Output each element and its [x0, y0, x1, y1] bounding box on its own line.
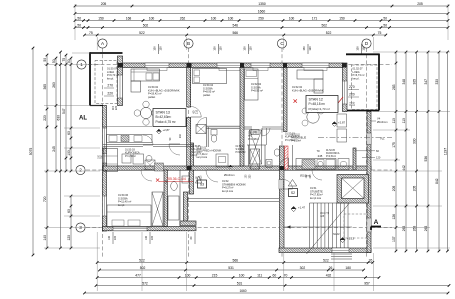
svg-text:347: 347 [424, 79, 428, 85]
svg-text:P=4,51m²: P=4,51m² [326, 155, 336, 158]
svg-text:100: 100 [185, 274, 191, 278]
closet cross box center [250, 130, 262, 164]
door lower-left bedroom [141, 170, 152, 181]
dimension row bottom-4 [95, 282, 451, 287]
svg-text:957: 957 [364, 282, 370, 286]
svg-text:B: B [187, 41, 190, 46]
loggia top-right block [346, 54, 379, 111]
stairwell south wall [279, 248, 371, 253]
closet row left apt hall [104, 149, 118, 172]
bath inner partition lower-left [179, 170, 181, 227]
grid bubble 3 [76, 223, 85, 232]
partition south of bedroom right apt (y127) [244, 127, 283, 129]
svg-text:283: 283 [392, 84, 396, 90]
svg-text:75: 75 [62, 58, 66, 62]
svg-text:210: 210 [179, 133, 182, 138]
label hall right apt [197, 147, 222, 160]
svg-text:AL: AL [79, 116, 87, 122]
bathroom fixtures left apt [122, 154, 164, 171]
svg-text:180: 180 [345, 266, 351, 270]
wall west of entrance court jog [184, 192, 188, 225]
svg-text:502: 502 [321, 24, 327, 28]
svg-text:120: 120 [376, 156, 381, 160]
dimension column left-2 [43, 54, 48, 250]
svg-text:26: 26 [369, 259, 373, 263]
svg-text:SILAZ: SILAZ [333, 233, 340, 236]
pier middle wall at B [187, 166, 192, 170]
svg-text:150: 150 [213, 46, 217, 51]
door arc living to hall [143, 135, 153, 145]
svg-text:120: 120 [159, 46, 163, 51]
partition WC/bath vertical left apt [207, 127, 209, 147]
svg-text:220: 220 [114, 235, 117, 240]
inner dim labels 150/120 cluster 3 [243, 44, 253, 54]
inner dim labels 150/120 cluster 4 [302, 44, 312, 54]
svg-text:P=2,40m²: P=2,40m² [192, 151, 202, 154]
svg-text:STAN 12: STAN 12 [309, 98, 323, 102]
svg-text:WC+TUŠ: WC+TUŠ [192, 148, 202, 151]
svg-text:S2: S2 [291, 191, 295, 195]
stair treads [283, 203, 367, 254]
svg-text:1660: 1660 [239, 289, 246, 293]
dimension column left-4 [57, 51, 62, 250]
svg-text:1350: 1350 [258, 2, 266, 6]
dimension row top-2 [74, 10, 450, 15]
svg-text:477: 477 [135, 274, 141, 278]
dimension column left-6 [67, 57, 72, 173]
window bedroom lower-left [103, 196, 107, 216]
dimension column right-2 [402, 51, 407, 253]
svg-text:205: 205 [101, 2, 107, 6]
svg-text:260: 260 [52, 82, 56, 88]
svg-text:+2,87: +2,87 [163, 128, 171, 132]
svg-text:302: 302 [300, 266, 306, 270]
wall on axis B upper (living/bedroom) [187, 68, 191, 108]
inner dim labels 150/120 cluster 2 [213, 44, 223, 54]
svg-text:50: 50 [52, 59, 56, 63]
wall return south-west of corridor [180, 221, 196, 225]
loggia top-left block [90, 52, 123, 105]
basin right apt east bath [338, 159, 349, 170]
svg-text:P=4,50m²: P=4,50m² [125, 155, 136, 158]
sofa right apartment [297, 70, 323, 93]
svg-text:70: 70 [284, 274, 288, 278]
svg-text:100: 100 [289, 17, 295, 21]
svg-text:220: 220 [349, 93, 355, 97]
STAN 13 label box [153, 109, 186, 127]
svg-text:566: 566 [232, 259, 238, 263]
svg-text:705.36-C.4/4: 705.36-C.4/4 [166, 177, 186, 181]
svg-text:70: 70 [316, 149, 320, 153]
svg-text:111: 111 [257, 274, 262, 278]
svg-text:502: 502 [143, 24, 149, 28]
label loggia top-left [107, 67, 119, 81]
svg-text:×28: ×28 [320, 215, 325, 218]
svg-text:150: 150 [339, 17, 345, 21]
sofa L-shape left apartment [131, 69, 160, 92]
svg-text:547: 547 [62, 108, 66, 114]
svg-text:PREDSOBLJE: PREDSOBLJE [291, 138, 307, 140]
door corridor to left hall [206, 170, 218, 182]
svg-text:120: 120 [362, 46, 366, 51]
svg-text:01.50.04: 01.50.04 [236, 146, 246, 148]
triangle vent near S3 [196, 176, 202, 183]
svg-text:26: 26 [329, 266, 333, 270]
svg-text:S.SOBA: S.SOBA [236, 148, 245, 151]
grid axis B (dashed vertical) [188, 48, 190, 257]
svg-text:220: 220 [151, 235, 154, 240]
svg-text:1660: 1660 [258, 10, 266, 14]
dimension row bottom-3 [96, 274, 380, 279]
label bedroom right apt [251, 82, 263, 93]
dimension row top-1 [74, 2, 450, 7]
kitchen counter left apartment [107, 135, 153, 143]
grid bubble B [184, 39, 193, 48]
pier at A/top wall [118, 63, 123, 68]
level mark diamond entrance [340, 237, 355, 243]
svg-text:270: 270 [107, 84, 113, 88]
red hatched wall segment center [285, 146, 289, 169]
svg-text:175: 175 [392, 142, 396, 148]
svg-text:100: 100 [108, 235, 111, 240]
wardrobe cross left apt [196, 125, 206, 134]
leader 60 right wall [355, 149, 379, 153]
wall on axis B lower [187, 118, 191, 167]
svg-text:110: 110 [392, 118, 396, 123]
dimension row top-4 [74, 24, 450, 29]
central bathroom fixtures left apt [211, 130, 228, 168]
corridor micro dims [197, 174, 313, 180]
svg-text:502: 502 [140, 266, 146, 270]
sill niche living left [147, 68, 167, 71]
window lower-left bedroom south [113, 227, 147, 231]
svg-text:531: 531 [228, 266, 234, 270]
apartment separation wall (STAN13/STAN12) [240, 68, 244, 167]
extension lines right [373, 52, 450, 248]
window in top wall right apt bedroom [251, 63, 270, 68]
label KUPAONICA right apt east [326, 150, 340, 158]
STAN 12 label box [306, 96, 338, 113]
svg-text:S3: S3 [200, 183, 204, 187]
grid bubble 1 [77, 60, 86, 69]
svg-text:ker.pl.: ker.pl. [107, 76, 114, 80]
svg-text:365: 365 [43, 84, 47, 90]
dimension row bottom-5 [83, 289, 449, 294]
svg-text:140: 140 [43, 235, 47, 241]
svg-text:220: 220 [107, 92, 113, 96]
svg-text:110: 110 [402, 118, 406, 123]
door right wall lower [367, 218, 371, 232]
svg-text:305: 305 [413, 79, 417, 85]
svg-text:205: 205 [413, 186, 417, 192]
central bathroom fixtures right apt [266, 149, 280, 168]
svg-text:50: 50 [383, 24, 387, 28]
dimension row top-3 [74, 17, 450, 22]
svg-text:Ø110mm: Ø110mm [300, 175, 310, 178]
window 115/220 in loggia TL wall [118, 75, 123, 98]
pier middle wall at stair wall [280, 166, 285, 170]
svg-text:120: 120 [67, 235, 71, 241]
svg-text:150: 150 [356, 46, 360, 51]
svg-text:ker.pl.: ker.pl. [353, 76, 360, 80]
svg-text:01.52.05: 01.52.05 [326, 150, 336, 152]
svg-text:KUH.+BLAG.+D.BORAVAK: KUH.+BLAG.+D.BORAVAK [292, 88, 324, 92]
label loggia top-right [353, 67, 365, 81]
dimension column left-1 [29, 47, 34, 257]
entrance steps outside south wall [331, 254, 352, 259]
dimension column right-3 [413, 51, 418, 253]
micro dim 100/220 left wall bath [99, 154, 104, 159]
svg-text:250: 250 [166, 179, 169, 184]
grid axis 1 (dashed horizontal) [88, 64, 392, 66]
balcony door left wall [103, 128, 107, 148]
label KUPAONICA center [285, 133, 300, 142]
dining table left apartment [134, 101, 158, 125]
label entry hall right apt [224, 173, 234, 177]
svg-text:parket: parket [203, 93, 210, 97]
svg-text:210: 210 [196, 109, 199, 114]
bed right apt bedroom [245, 69, 259, 100]
svg-text:VL1: VL1 [380, 137, 385, 141]
grid axis 2 (dashed horizontal) [86, 169, 392, 171]
svg-text:522: 522 [323, 259, 329, 263]
svg-text:522: 522 [139, 31, 145, 35]
svg-text:220: 220 [352, 101, 356, 106]
svg-text:150: 150 [153, 46, 157, 51]
door right apt hall [312, 170, 322, 180]
svg-text:100: 100 [145, 235, 148, 240]
level diamond small near wall [229, 165, 233, 169]
svg-text:KUPAONICA: KUPAONICA [326, 152, 340, 155]
dimension column right-1 [392, 51, 397, 253]
svg-text:171: 171 [312, 17, 318, 21]
sill niche bedroom left [219, 68, 240, 71]
svg-text:270: 270 [349, 85, 355, 89]
label lower-left bedroom [118, 193, 131, 207]
svg-text:ker.pl.: ker.pl. [118, 203, 125, 207]
svg-text:P=3,39m²: P=3,39m² [291, 140, 301, 143]
red revision text left 705.36-C.4/4 [156, 177, 193, 182]
svg-text:50: 50 [383, 17, 387, 21]
wall east of left apartment lower rooms [190, 143, 194, 194]
level diamond +2,87 left apt [157, 128, 171, 134]
extension lines top [75, 4, 448, 50]
svg-text:75: 75 [378, 31, 382, 35]
exterior wall bottom-left [103, 227, 197, 231]
svg-text:522: 522 [326, 31, 332, 35]
exterior wall left [103, 106, 107, 232]
svg-text:120: 120 [249, 46, 253, 51]
window in top wall right apt living [302, 63, 329, 68]
pier at loggia/top wall right [342, 63, 347, 68]
svg-text:Ø110mm: Ø110mm [377, 120, 387, 124]
V4 vent label right wall [371, 117, 387, 125]
svg-text:137: 137 [392, 236, 396, 242]
svg-text:720: 720 [43, 196, 47, 202]
svg-text:V4: V4 [377, 117, 381, 121]
svg-text:50: 50 [77, 17, 81, 21]
svg-text:ker.pl.: ker.pl. [192, 154, 198, 157]
window in top wall left apt living [145, 63, 169, 68]
dimension column left-5 [62, 54, 67, 173]
svg-text:ker.pl.cca: ker.pl.cca [222, 189, 234, 193]
sill niche bedroom right [253, 68, 268, 71]
S2 boxed label [289, 189, 298, 197]
svg-text:120: 120 [308, 46, 312, 51]
svg-text:220: 220 [43, 115, 47, 121]
dimension column right-5 [435, 51, 440, 253]
corridor south glazing line [188, 199, 280, 202]
grid axis A (dashed vertical) [102, 48, 104, 257]
svg-text:263: 263 [402, 226, 406, 232]
svg-text:01.50.05: 01.50.05 [192, 146, 202, 148]
wall between living and loggia TR [343, 63, 348, 112]
svg-text:842: 842 [435, 178, 439, 184]
svg-text:P=48,18 m²: P=48,18 m² [309, 102, 326, 106]
svg-text:P=8,95 m²: P=8,95 m² [251, 89, 263, 93]
label kitchen left apartment [148, 85, 180, 99]
section marker A bottom-right [371, 219, 381, 230]
exterior wall top (axis 1) [118, 63, 343, 68]
svg-text:566: 566 [232, 31, 238, 35]
svg-text:5075: 5075 [29, 148, 33, 156]
extension lines bottom [97, 232, 373, 291]
dimension column left-7 [67, 195, 72, 250]
svg-text:572: 572 [142, 282, 148, 286]
dim text 270/220 at loggia TL [104, 84, 114, 97]
window in top wall left apt bedroom [217, 63, 242, 68]
central corridor label [222, 179, 246, 193]
svg-text:50: 50 [67, 59, 71, 63]
svg-text:150: 150 [243, 46, 247, 51]
stairwell west wall [280, 146, 285, 251]
entrance door in south wall [332, 248, 349, 253]
dining table right apartment [302, 108, 324, 126]
label WC center [248, 132, 259, 141]
S3 boxed label [198, 180, 207, 188]
svg-text:parket: parket [148, 95, 155, 99]
window right wall upper [367, 133, 371, 145]
pier at C/top wall [283, 63, 287, 68]
dimension row bottom-1 [96, 259, 374, 264]
wardrobe cross right apt [250, 149, 260, 169]
svg-text:432: 432 [326, 274, 332, 278]
svg-text:100: 100 [67, 150, 71, 156]
svg-text:+2,87: +2,87 [338, 121, 346, 125]
kitchen counter right apartment [296, 114, 347, 170]
level mark diamond stairwell [291, 206, 306, 212]
label kitchen right apartment [292, 85, 324, 92]
dimension column right-6 [444, 51, 449, 253]
window 115/220 in loggia TR wall [343, 81, 348, 104]
door marks 90/210 left apt [169, 133, 182, 140]
svg-text:220: 220 [114, 105, 118, 110]
grid axis 3 (dashed horizontal) [86, 227, 392, 229]
wall between loggia TL and living room [118, 56, 123, 106]
bed lower-left bedroom [107, 205, 151, 227]
exterior wall right [367, 112, 371, 253]
svg-text:Ø110mm: Ø110mm [224, 173, 234, 177]
door marks 60/210 axis B [193, 109, 199, 114]
svg-text:P(zida)=1,73 m²: P(zida)=1,73 m² [309, 107, 330, 111]
svg-text:330: 330 [435, 79, 439, 85]
label bathroom left apt [125, 149, 140, 158]
svg-text:STAN 13: STAN 13 [156, 111, 170, 115]
grid axis C (dashed vertical) [281, 48, 283, 257]
door into stairwell [283, 180, 293, 190]
svg-text:1: 1 [80, 62, 83, 67]
door right apt bath [280, 158, 289, 167]
grid bubble C [277, 39, 286, 48]
svg-text:120: 120 [219, 46, 223, 51]
svg-text:Poda=4,75 m²: Poda=4,75 m² [156, 120, 176, 124]
svg-text:348: 348 [402, 79, 406, 85]
central WC partition [247, 128, 267, 166]
dimension column right-4 [424, 51, 429, 253]
svg-text:50: 50 [43, 58, 47, 62]
kitchen zone line left apt [103, 126, 152, 128]
level diamond +2,87 right apt [332, 121, 346, 127]
grid bubble D [362, 39, 371, 48]
svg-text:263: 263 [424, 226, 428, 232]
elevator shaft with cross [337, 175, 369, 204]
label WC+TUS left apt [192, 146, 202, 157]
svg-text:126: 126 [392, 214, 396, 220]
door arc bedroom right apt [262, 128, 270, 136]
pier at separation/top wall [240, 63, 244, 68]
partition bedroom/living right apt [284, 68, 288, 132]
svg-text:60: 60 [253, 130, 257, 134]
svg-text:50: 50 [77, 24, 81, 28]
grid bubble 2 [76, 165, 85, 174]
svg-text:100: 100 [239, 274, 245, 278]
bathroom fixtures lower-left [168, 176, 189, 220]
svg-text:+1,47: +1,47 [298, 206, 306, 210]
svg-text:75: 75 [89, 31, 93, 35]
svg-text:ker.pl.cca: ker.pl.cca [310, 196, 322, 200]
bed left apt second bedroom [193, 69, 227, 84]
svg-text:150: 150 [302, 46, 306, 51]
svg-text:01.52.01: 01.52.01 [291, 135, 301, 137]
door leaf axis B [191, 107, 202, 118]
svg-text:245: 245 [52, 146, 56, 152]
inner dim labels 150/120 cluster 5 [356, 44, 366, 54]
door arc bedroom left apt [197, 118, 207, 128]
60 boxed label [251, 130, 259, 135]
partition hall/kitchen left apt [103, 145, 194, 147]
svg-text:168: 168 [126, 17, 132, 21]
svg-text:2: 2 [79, 168, 82, 173]
dim text 270/220 at loggia TR [348, 85, 359, 97]
svg-text:531: 531 [237, 282, 243, 286]
door stairwell west wall [279, 180, 283, 190]
svg-text:330: 330 [413, 138, 417, 144]
svg-text:60: 60 [67, 209, 71, 213]
partition bedroom/bath lower-left [164, 170, 167, 227]
svg-text:262: 262 [180, 17, 186, 21]
red revision mark right [294, 97, 344, 103]
label bedroom left apt [203, 83, 215, 97]
door arc hall [169, 144, 180, 155]
svg-text:+1,13: +1,13 [347, 237, 355, 241]
stairwell label [310, 186, 323, 200]
svg-text:546: 546 [232, 24, 238, 28]
svg-text:P=9,06m²: P=9,06m² [236, 151, 246, 154]
svg-text:150: 150 [98, 17, 104, 21]
interior bearing wall (axis 2) [103, 166, 372, 170]
svg-text:100: 100 [228, 17, 234, 21]
svg-text:205: 205 [417, 2, 423, 6]
